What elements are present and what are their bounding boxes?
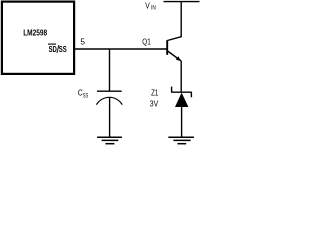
svg-text:LM2598: LM2598: [23, 29, 48, 38]
svg-text:Q1: Q1: [142, 38, 151, 47]
svg-text:3V: 3V: [150, 99, 159, 109]
svg-text:SS: SS: [59, 45, 67, 54]
svg-text:V: V: [145, 1, 150, 11]
svg-text:5: 5: [80, 37, 85, 47]
svg-text:IN: IN: [151, 5, 156, 12]
svg-text:SS: SS: [83, 93, 89, 99]
svg-text:Z1: Z1: [151, 88, 159, 97]
svg-text:SD: SD: [49, 45, 57, 54]
